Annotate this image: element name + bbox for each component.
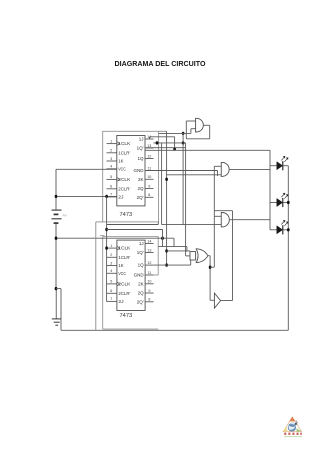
junction bus B at x157 bbox=[156, 141, 159, 144]
svg-text:12: 12 bbox=[147, 154, 151, 158]
G0 feedback loop bbox=[209, 125, 211, 139]
LED D2 light arrows bbox=[281, 193, 285, 197]
svg-text:1Q': 1Q' bbox=[137, 146, 144, 151]
svg-text:1: 1 bbox=[110, 139, 112, 143]
svg-text:VCC: VCC bbox=[118, 166, 126, 171]
U2 pin 7 (2J) stub bbox=[107, 300, 117, 302]
junction U1 pin7 bbox=[105, 195, 108, 198]
junction column xor top bbox=[165, 249, 168, 252]
LED D2 bbox=[270, 202, 277, 204]
svg-text:1J: 1J bbox=[139, 241, 144, 246]
U2 pin 6 (2CLR') stub bbox=[107, 292, 117, 294]
G3 output down to buffer bbox=[209, 256, 211, 300]
svg-text:GND: GND bbox=[134, 168, 145, 173]
U1 pin 2 (1CLR') stub bbox=[107, 152, 117, 154]
U1 pin 11 (GND) stub bbox=[145, 170, 154, 172]
svg-text:2CLK: 2CLK bbox=[118, 177, 130, 182]
junction 1Q net bbox=[173, 147, 176, 150]
svg-text:2CLR': 2CLR' bbox=[118, 291, 130, 296]
svg-text:5: 5 bbox=[110, 280, 112, 284]
junction D2 cathode bbox=[287, 201, 290, 204]
svg-text:1CLK: 1CLK bbox=[118, 141, 130, 146]
+ rail from battery bbox=[56, 237, 174, 239]
U2 pin 9 (2Q) stub bbox=[145, 292, 154, 294]
wire branch down to xor feed bbox=[162, 230, 164, 247]
U1 pin 4 (VCC) stub bbox=[107, 168, 117, 170]
battery BAT1 bbox=[55, 169, 57, 209]
svg-text:VCC: VCC bbox=[118, 271, 126, 276]
U1 pin 13 (1Q') stub bbox=[145, 147, 154, 149]
U2 pin 10 (2K) stub bbox=[145, 283, 154, 285]
IC U2 7473 body bbox=[117, 240, 145, 310]
svg-text:4v: 4v bbox=[63, 213, 67, 218]
junction bus B0 bbox=[182, 132, 185, 135]
ground GND1 bbox=[52, 318, 62, 320]
U2 pin 4 (VCC) stub bbox=[107, 272, 117, 274]
svg-text:8: 8 bbox=[148, 193, 150, 197]
svg-text:2: 2 bbox=[110, 149, 112, 153]
svg-text:1K: 1K bbox=[118, 159, 123, 164]
svg-text:2J: 2J bbox=[118, 299, 123, 304]
bottom ground rail bbox=[61, 329, 288, 331]
svg-text:14: 14 bbox=[147, 239, 151, 243]
bus wire down to XOR input bbox=[185, 143, 187, 256]
wire to G3 box top bbox=[158, 246, 187, 248]
IC U1 7473 body bbox=[117, 136, 145, 206]
svg-text:4: 4 bbox=[110, 269, 112, 273]
svg-text:11: 11 bbox=[147, 271, 151, 275]
U1 pin 12 (1Q) stub bbox=[145, 158, 154, 160]
svg-text:DIAGRAMA DEL CIRCUITO: DIAGRAMA DEL CIRCUITO bbox=[115, 59, 206, 68]
U1 outer top extension bbox=[159, 130, 167, 132]
svg-text:12: 12 bbox=[147, 261, 151, 265]
G3 output bbox=[208, 255, 210, 257]
svg-text:1Q: 1Q bbox=[137, 156, 144, 161]
vertical wire left of U2 bbox=[95, 222, 97, 330]
junction battery top bbox=[55, 195, 58, 198]
G4 output bbox=[221, 300, 233, 302]
svg-text:2CLR': 2CLR' bbox=[118, 186, 130, 191]
svg-text:4: 4 bbox=[110, 165, 112, 169]
AND gate G2 body bbox=[221, 213, 229, 227]
U2 pin 2 (1CLR') stub bbox=[107, 256, 117, 258]
AND gate G0 body bbox=[196, 118, 204, 132]
wire AND1 lower input bbox=[167, 174, 222, 176]
U2 pin 13 (1Q') stub bbox=[145, 252, 154, 254]
svg-text:2Q: 2Q bbox=[138, 291, 145, 296]
junction rail x162 bbox=[161, 237, 164, 240]
svg-text:7473: 7473 bbox=[120, 313, 133, 319]
U2 pin 5 (2CLK) stub bbox=[107, 283, 117, 285]
U1 outer box bottom extension bbox=[96, 221, 103, 223]
wire U1 1Q- extension bbox=[145, 147, 186, 149]
wire U1 GND pin11 bbox=[145, 170, 218, 172]
svg-text:3: 3 bbox=[110, 261, 112, 265]
U1 pin 14 (1J) stub bbox=[145, 138, 154, 140]
junction at U2 pin1 bbox=[105, 246, 108, 249]
svg-text:2Q: 2Q bbox=[137, 186, 144, 191]
svg-text:2CLK: 2CLK bbox=[118, 282, 130, 287]
svg-text:1CLK: 1CLK bbox=[118, 246, 130, 251]
G3 top input wire bbox=[167, 250, 190, 252]
wire battery to ground bbox=[55, 289, 57, 319]
wire G2 column down bbox=[213, 211, 215, 268]
wire under U1 a corner up bbox=[157, 222, 159, 225]
G2 box top bbox=[214, 210, 232, 212]
wire jog to bottom rail bbox=[56, 288, 61, 290]
svg-text:1CLR': 1CLR' bbox=[118, 150, 130, 155]
svg-text:1Q: 1Q bbox=[138, 263, 145, 268]
wire down to 1Q net bbox=[174, 137, 176, 149]
svg-text:GND: GND bbox=[134, 273, 145, 278]
svg-text:7473: 7473 bbox=[120, 212, 133, 218]
svg-text:2Q': 2Q' bbox=[137, 195, 144, 200]
svg-text:8: 8 bbox=[148, 298, 150, 302]
svg-text:2K: 2K bbox=[138, 177, 144, 182]
IC U2 7473 outer routing box bbox=[102, 237, 104, 330]
U2 pin 11 (GND) stub bbox=[145, 274, 154, 276]
column wire from U1 top bbox=[166, 131, 168, 265]
svg-text:2Q': 2Q' bbox=[137, 299, 144, 304]
svg-text:9: 9 bbox=[148, 184, 150, 188]
svg-text:1: 1 bbox=[110, 244, 112, 248]
svg-text:1J: 1J bbox=[139, 137, 144, 142]
U1 pin 3 (1K) stub bbox=[107, 160, 117, 162]
rail branch down bbox=[173, 238, 175, 246]
G0 top input bbox=[186, 120, 195, 122]
IC U1 7473 outer routing box bbox=[103, 131, 159, 222]
U1 pin 6 (2CLR') stub bbox=[107, 188, 117, 190]
U2 pin 14 (1J) stub bbox=[145, 243, 154, 245]
svg-text:13: 13 bbox=[147, 144, 151, 148]
U1 pin 8 (2Q') stub bbox=[145, 196, 154, 198]
junction D3 cathode bbox=[287, 228, 290, 231]
U1 pin 9 (2Q) stub bbox=[145, 188, 154, 190]
svg-text:2: 2 bbox=[110, 253, 112, 257]
junction bus B1 bbox=[182, 141, 185, 144]
school logo bbox=[283, 417, 302, 437]
junction G3 out bbox=[209, 266, 212, 269]
junction x106 y229 bbox=[105, 228, 108, 231]
wire to LED column bbox=[145, 149, 270, 151]
G4 input bbox=[210, 299, 214, 301]
LED anode column bbox=[269, 150, 271, 230]
wire down to G2 input net bbox=[161, 143, 163, 225]
junction battery bottom bbox=[55, 287, 58, 290]
U2 pin 3 (1K) stub bbox=[107, 265, 117, 267]
U1 pin 1 (1CLK) stub bbox=[107, 143, 117, 145]
junction column 2K bbox=[165, 178, 168, 181]
wire junction to feedback column bbox=[210, 266, 214, 268]
svg-text:3: 3 bbox=[110, 157, 112, 161]
wire U1 1J jog bbox=[149, 137, 151, 139]
wire feedback bus B bbox=[154, 142, 186, 144]
U2 pin 8 (2Q') stub bbox=[145, 301, 154, 303]
LED cathode column bbox=[287, 166, 289, 331]
U1 pin 10 (2K) stub bbox=[145, 178, 154, 180]
wire VCC rail to U1 pin 4 bbox=[56, 168, 117, 170]
svg-text:1CLR': 1CLR' bbox=[118, 255, 130, 260]
svg-text:10: 10 bbox=[147, 280, 151, 284]
U1 pin 7 (2J) stub bbox=[107, 196, 117, 198]
wire U1 pin7 down to U2 pin7 bbox=[106, 196, 108, 301]
U1 pin 5 (2CLK) stub bbox=[107, 178, 117, 180]
LED D1 light arrows bbox=[281, 156, 285, 160]
U2 1Q wire to G3 bbox=[154, 264, 191, 266]
wire G2 bottom input bbox=[162, 224, 222, 226]
svg-text:10: 10 bbox=[147, 175, 151, 179]
G0 output bbox=[203, 124, 209, 126]
XOR gate G3 input box bbox=[190, 252, 196, 260]
bus wire down to AND2 input bbox=[182, 133, 184, 224]
svg-text:2K: 2K bbox=[138, 281, 144, 286]
XOR gate G3 body bbox=[196, 249, 208, 263]
svg-text:1Q': 1Q' bbox=[137, 250, 144, 255]
junction battery + rail bbox=[55, 237, 58, 240]
U2 pin 12 (1Q) stub bbox=[145, 264, 154, 266]
svg-text:2J: 2J bbox=[118, 195, 123, 200]
wire under U1 a bbox=[107, 224, 159, 226]
svg-text:11: 11 bbox=[147, 166, 151, 170]
G1 input box bbox=[214, 165, 221, 167]
tick on left column bbox=[100, 235, 105, 237]
buffer G4 body bbox=[214, 293, 220, 308]
G2 output bbox=[229, 219, 270, 221]
feedback right column bbox=[232, 211, 234, 301]
LED D1 bbox=[270, 165, 277, 167]
wire top AND input feed bbox=[159, 132, 191, 134]
svg-text:13: 13 bbox=[147, 248, 151, 252]
U2 pin 1 (1CLK) stub bbox=[107, 247, 117, 249]
svg-text:9: 9 bbox=[148, 289, 150, 293]
junction column xor bottom bbox=[165, 263, 168, 266]
AND gate G1 body bbox=[221, 162, 229, 176]
svg-text:6: 6 bbox=[110, 289, 112, 293]
wire under U1 b bbox=[107, 229, 163, 231]
svg-text:1K: 1K bbox=[118, 263, 123, 268]
G1 output bbox=[229, 168, 270, 170]
wire node to U1 pin 7 bbox=[56, 195, 117, 197]
svg-text:5: 5 bbox=[110, 175, 112, 179]
LED D3 light arrows bbox=[281, 220, 285, 224]
G2 step input bbox=[214, 215, 221, 217]
LED D3 bbox=[270, 229, 277, 231]
svg-text:7: 7 bbox=[110, 297, 112, 301]
svg-text:6: 6 bbox=[110, 185, 112, 189]
